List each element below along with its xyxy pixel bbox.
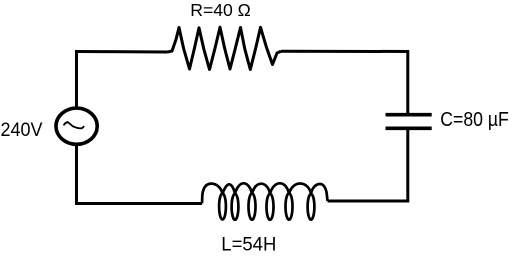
wire top-left segment bbox=[77, 52, 168, 54]
svg-text:240V: 240V bbox=[1, 119, 43, 141]
svg-text:L=54H: L=54H bbox=[221, 234, 276, 255]
resistor R (R=40 ohm) bbox=[168, 27, 282, 69]
wire bottom-right segment bbox=[328, 200, 410, 203]
label 240V bbox=[1, 119, 43, 141]
wire right lower (capacitor to bottom) bbox=[406, 130, 409, 203]
label R=40 Ohm bbox=[190, 0, 251, 20]
AC source V1 (240V) bbox=[56, 108, 97, 144]
wire bottom-left segment bbox=[77, 202, 203, 205]
inductor L (L=54H) bbox=[202, 183, 328, 220]
wire right upper (into capacitor) bbox=[406, 50, 409, 113]
wire left lower (source to bottom) bbox=[75, 146, 78, 206]
svg-text:C=80 µF: C=80 µF bbox=[440, 109, 509, 131]
wire left upper (top to source) bbox=[75, 50, 78, 107]
label L=54H bbox=[221, 234, 276, 255]
label C=80 uF bbox=[440, 109, 509, 131]
capacitor C (C=80 uF) bbox=[386, 115, 432, 129]
svg-text:R=40 Ω: R=40 Ω bbox=[190, 0, 251, 20]
wire top-right segment bbox=[281, 50, 408, 53]
